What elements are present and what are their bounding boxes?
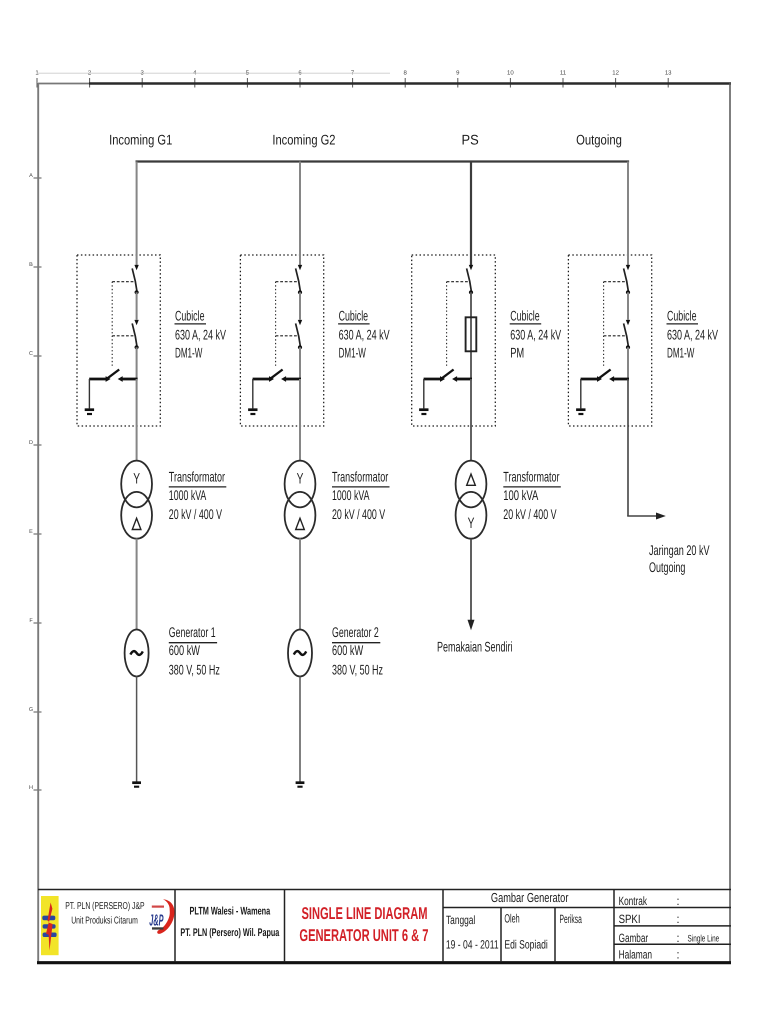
wire between switches G2: [299, 292, 301, 320]
cubicle G1 dashed enclosure: [77, 255, 160, 426]
wire: bus drop into cubicle PS: [470, 162, 472, 266]
circuit breaker CB-G2 blade: [296, 323, 301, 346]
ground symbol of ES-PS: [419, 408, 428, 411]
wire below CB-G1: [136, 347, 138, 380]
wire between switches G1: [136, 292, 138, 320]
svg-text:G: G: [29, 707, 33, 713]
transformer T-G1 secondary winding: [121, 492, 152, 539]
circuit breaker CB-OUT blade: [624, 323, 629, 346]
transformer T-G1 primary winding: [121, 461, 152, 508]
svg-text:A: A: [29, 173, 33, 179]
ground symbol of ES-G1: [85, 408, 94, 411]
circuit breaker CB-G1 top contact: [134, 320, 138, 325]
linkage dashed vertical G1: [111, 282, 113, 368]
svg-text:1000 kVA: 1000 kVA: [332, 487, 370, 503]
linkage dashed vertical OUT: [603, 282, 605, 368]
transformer T-PS secondary winding: [456, 492, 487, 539]
svg-text:Cubicle: Cubicle: [667, 308, 697, 324]
svg-text:12: 12: [612, 70, 619, 77]
wire: bus drop into cubicle G2: [299, 162, 301, 266]
svg-text:Oleh: Oleh: [504, 912, 519, 926]
transformer T-G2 secondary winding: [285, 492, 316, 539]
svg-text:380 V, 50 Hz: 380 V, 50 Hz: [332, 661, 383, 677]
svg-text:PT. PLN (Persero) Wil. Papua: PT. PLN (Persero) Wil. Papua: [180, 927, 279, 939]
PLN logo: [41, 896, 59, 955]
svg-text:20 kV / 400 V: 20 kV / 400 V: [169, 506, 223, 522]
wire to earth PS: [423, 379, 425, 408]
earthing switch ES-G2 left bar: [253, 378, 270, 381]
disconnector switch DS-G1 top contact: [134, 265, 138, 270]
wire cubicle to transformer G1: [136, 379, 138, 461]
frame top ruler ticks: [37, 78, 668, 88]
generator G1 circle: [125, 630, 149, 677]
svg-text:Y: Y: [133, 471, 140, 488]
circuit breaker CB-G1 blade: [132, 323, 137, 346]
frame border left: [37, 83, 39, 963]
linkage dashed to DS-G1: [112, 281, 134, 283]
transformer T-G1 vector group symbol bottom: [132, 518, 141, 529]
ground symbol of ES-G2: [248, 408, 257, 411]
circuit breaker CB-G2 top contact: [298, 320, 302, 325]
wire to earth G2: [252, 379, 254, 408]
svg-text:DM1-W: DM1-W: [339, 344, 367, 360]
linkage dashed to DS-G2: [276, 281, 298, 283]
linkage dashed to DS-OUT: [604, 281, 626, 283]
earthing switch ES-PS left bar: [424, 378, 441, 381]
svg-text:Pemakaian Sendiri: Pemakaian Sendiri: [437, 639, 513, 655]
wire cubicle to transformer PS: [470, 379, 472, 461]
wire: bus drop into cubicle G1: [136, 162, 138, 266]
earthing switch ES-G1 blade: [106, 370, 119, 380]
svg-text:PM: PM: [510, 344, 524, 360]
wire: main 20 kV bus: [136, 160, 630, 162]
svg-text:Transformator: Transformator: [332, 469, 388, 485]
wire: bus drop into cubicle OUT: [627, 162, 629, 266]
node: DS-G2 bottom contact: [298, 290, 302, 294]
svg-text::: :: [677, 912, 680, 926]
svg-text:Transformator: Transformator: [169, 469, 225, 485]
svg-text:DM1-W: DM1-W: [175, 344, 203, 360]
wire to earth G1: [88, 379, 90, 408]
svg-text:Generator 1: Generator 1: [169, 624, 216, 640]
wire transformer to generator G1: [136, 539, 138, 631]
wire generator G1 to ground: [136, 676, 138, 781]
wire outgoing horizontal: [627, 515, 657, 517]
svg-text:Gambar: Gambar: [619, 931, 649, 945]
svg-text:Cubicle: Cubicle: [339, 308, 369, 324]
fuse F1: [466, 317, 477, 351]
svg-text:B: B: [29, 262, 33, 268]
svg-text:630 A, 24 kV: 630 A, 24 kV: [510, 326, 561, 342]
svg-text:13: 13: [665, 70, 672, 77]
svg-text:Edi Sopiadi: Edi Sopiadi: [504, 938, 547, 952]
node: DS-PS bottom contact: [469, 290, 473, 294]
generator G2 AC tilde: [294, 651, 306, 655]
cubicle G2 dashed enclosure: [240, 255, 323, 426]
svg-text:PLTM Walesi - Wamena: PLTM Walesi - Wamena: [190, 905, 271, 917]
linkage dashed vertical G2: [275, 282, 277, 368]
wire to earth OUT: [580, 379, 582, 408]
wire between switches OUT: [627, 292, 629, 320]
transformer T-PS primary winding: [456, 461, 487, 508]
node: CB-G1 bottom contact: [135, 345, 139, 349]
svg-text:GENERATOR UNIT 6 & 7: GENERATOR UNIT 6 & 7: [299, 926, 428, 945]
disconnector switch DS-OUT blade: [624, 268, 629, 291]
frame ruler faint edge: [37, 72, 390, 74]
cubicle OUT dashed enclosure: [568, 255, 651, 426]
node: CB-OUT bottom contact: [626, 345, 630, 349]
transformer T-PS vector group symbol top: [467, 474, 476, 485]
generator G1 AC tilde: [130, 651, 142, 655]
svg-text:PS: PS: [462, 132, 479, 148]
earthing switch ES-G1 right bar: [122, 378, 137, 381]
svg-text:DM1-W: DM1-W: [667, 344, 695, 360]
svg-text:Outgoing: Outgoing: [576, 132, 622, 148]
wire below CB-G2: [299, 347, 301, 380]
frame border bottom: [37, 961, 731, 964]
J&P logo: [149, 899, 174, 934]
node: CB-G2 bottom contact: [298, 345, 302, 349]
svg-text:C: C: [29, 351, 33, 357]
svg-text::: :: [677, 931, 680, 945]
transformer T-G2 primary winding: [285, 461, 316, 508]
generator G2 circle: [288, 630, 312, 677]
earthing switch ES-G2 blade: [269, 370, 282, 380]
cubicle PS dashed enclosure: [412, 255, 496, 426]
earthing switch ES-OUT contact arrow right: [609, 376, 614, 382]
disconnector switch DS-PS blade: [467, 268, 472, 291]
ground symbol of ES-OUT: [576, 408, 585, 411]
svg-text:Halaman: Halaman: [619, 948, 653, 962]
svg-text:630 A, 24 kV: 630 A, 24 kV: [667, 326, 718, 342]
svg-text:Jaringan 20 kV: Jaringan 20 kV: [649, 542, 710, 558]
ground of generator G2: [296, 783, 305, 787]
svg-text::: :: [677, 948, 680, 962]
svg-text:J&P: J&P: [149, 912, 163, 929]
svg-text:SPKI: SPKI: [619, 912, 641, 926]
svg-text:D: D: [29, 440, 33, 446]
wire transformer to generator G2: [299, 539, 301, 631]
svg-text:11: 11: [560, 70, 567, 77]
circuit breaker CB-OUT top contact: [626, 320, 630, 325]
earthing switch ES-G1 contact arrow left: [106, 376, 111, 382]
disconnector switch DS-G2 top contact: [298, 265, 302, 270]
svg-text:Transformator: Transformator: [503, 469, 559, 485]
svg-text:Incoming G1: Incoming G1: [109, 132, 172, 148]
earthing switch ES-PS contact arrow right: [452, 376, 457, 382]
svg-text:Gambar Generator: Gambar Generator: [491, 890, 569, 905]
frame border right: [729, 83, 731, 963]
earthing switch ES-G1 left bar: [89, 378, 106, 381]
linkage dashed to CB-G1: [112, 335, 134, 337]
earthing switch ES-OUT contact arrow left: [597, 376, 602, 382]
svg-text:100 kVA: 100 kVA: [503, 487, 538, 503]
transformer T-G2 vector group symbol bottom: [296, 518, 305, 529]
svg-text:Unit Produksi Citarum: Unit Produksi Citarum: [71, 916, 138, 927]
svg-text:Kontrak: Kontrak: [619, 894, 648, 908]
disconnector switch DS-G2 blade: [296, 268, 301, 291]
svg-text:600 kW: 600 kW: [332, 642, 364, 658]
svg-text:Periksa: Periksa: [560, 912, 582, 926]
earthing switch ES-PS right bar: [457, 378, 472, 381]
earthing switch ES-G2 contact arrow right: [281, 376, 286, 382]
arrowhead right outgoing: [656, 513, 666, 520]
svg-text:630 A, 24 kV: 630 A, 24 kV: [339, 326, 390, 342]
svg-text::: :: [677, 894, 680, 908]
earthing switch ES-G1 contact arrow right: [118, 376, 123, 382]
svg-text:Cubicle: Cubicle: [175, 308, 205, 324]
earthing switch ES-PS blade: [440, 370, 453, 380]
svg-text:10: 10: [507, 70, 514, 77]
node: DS-OUT bottom contact: [626, 290, 630, 294]
svg-text:Y: Y: [297, 471, 304, 488]
svg-text:19 - 04 - 2011: 19 - 04 - 2011: [446, 938, 499, 952]
earthing switch ES-G2 right bar: [286, 378, 301, 381]
frame left ruler ticks and letters: [34, 178, 42, 790]
svg-text:1000 kVA: 1000 kVA: [169, 487, 207, 503]
disconnector switch DS-OUT top contact: [626, 265, 630, 270]
svg-text:Generator 2: Generator 2: [332, 624, 379, 640]
svg-text:H: H: [29, 785, 33, 791]
node: DS-G1 bottom contact: [135, 290, 139, 294]
earthing switch ES-OUT blade: [597, 370, 610, 380]
ground of generator G1: [132, 783, 141, 787]
linkage dashed to CB-OUT: [604, 335, 626, 337]
svg-text:20 kV / 400 V: 20 kV / 400 V: [332, 506, 386, 522]
svg-text:SINGLE LINE DIAGRAM: SINGLE LINE DIAGRAM: [302, 904, 428, 923]
svg-text:E: E: [29, 529, 33, 535]
frame top ruler numbers: [35, 70, 672, 77]
svg-text:20 kV / 400 V: 20 kV / 400 V: [503, 506, 557, 522]
linkage dashed to DS-PS: [447, 281, 469, 283]
svg-text:Outgoing: Outgoing: [649, 559, 685, 575]
wire cubicle to transformer G2: [299, 379, 301, 461]
svg-text:380 V, 50 Hz: 380 V, 50 Hz: [169, 661, 220, 677]
title block outline: [38, 890, 731, 963]
frame border top: [38, 83, 90, 85]
wire generator G2 to ground: [299, 676, 301, 781]
earthing switch ES-G2 contact arrow left: [269, 376, 274, 382]
disconnector switch DS-PS top contact: [469, 265, 473, 270]
disconnector switch DS-G1 blade: [132, 268, 137, 291]
earthing switch ES-PS contact arrow left: [440, 376, 445, 382]
wire through fuse PS: [470, 292, 472, 380]
earthing switch ES-OUT right bar: [614, 378, 629, 381]
earthing switch ES-OUT left bar: [581, 378, 598, 381]
wire arrow to Pemakaian Sendiri: [470, 539, 472, 622]
wire below CB-OUT: [627, 347, 629, 380]
linkage dashed vertical PS: [446, 282, 448, 368]
svg-text:Incoming G2: Incoming G2: [272, 132, 335, 148]
svg-text:Single Line: Single Line: [688, 934, 720, 945]
svg-text:Y: Y: [468, 515, 475, 532]
svg-text:Cubicle: Cubicle: [510, 308, 540, 324]
linkage dashed to CB-G2: [276, 335, 298, 337]
svg-text:630 A, 24 kV: 630 A, 24 kV: [175, 326, 226, 342]
svg-text:PT. PLN (PERSERO) J&P: PT. PLN (PERSERO) J&P: [65, 901, 145, 912]
wire outgoing down: [627, 379, 629, 516]
svg-text:600 kW: 600 kW: [169, 642, 201, 658]
arrowhead down PS: [468, 620, 475, 630]
svg-text:Tanggal: Tanggal: [446, 913, 475, 927]
